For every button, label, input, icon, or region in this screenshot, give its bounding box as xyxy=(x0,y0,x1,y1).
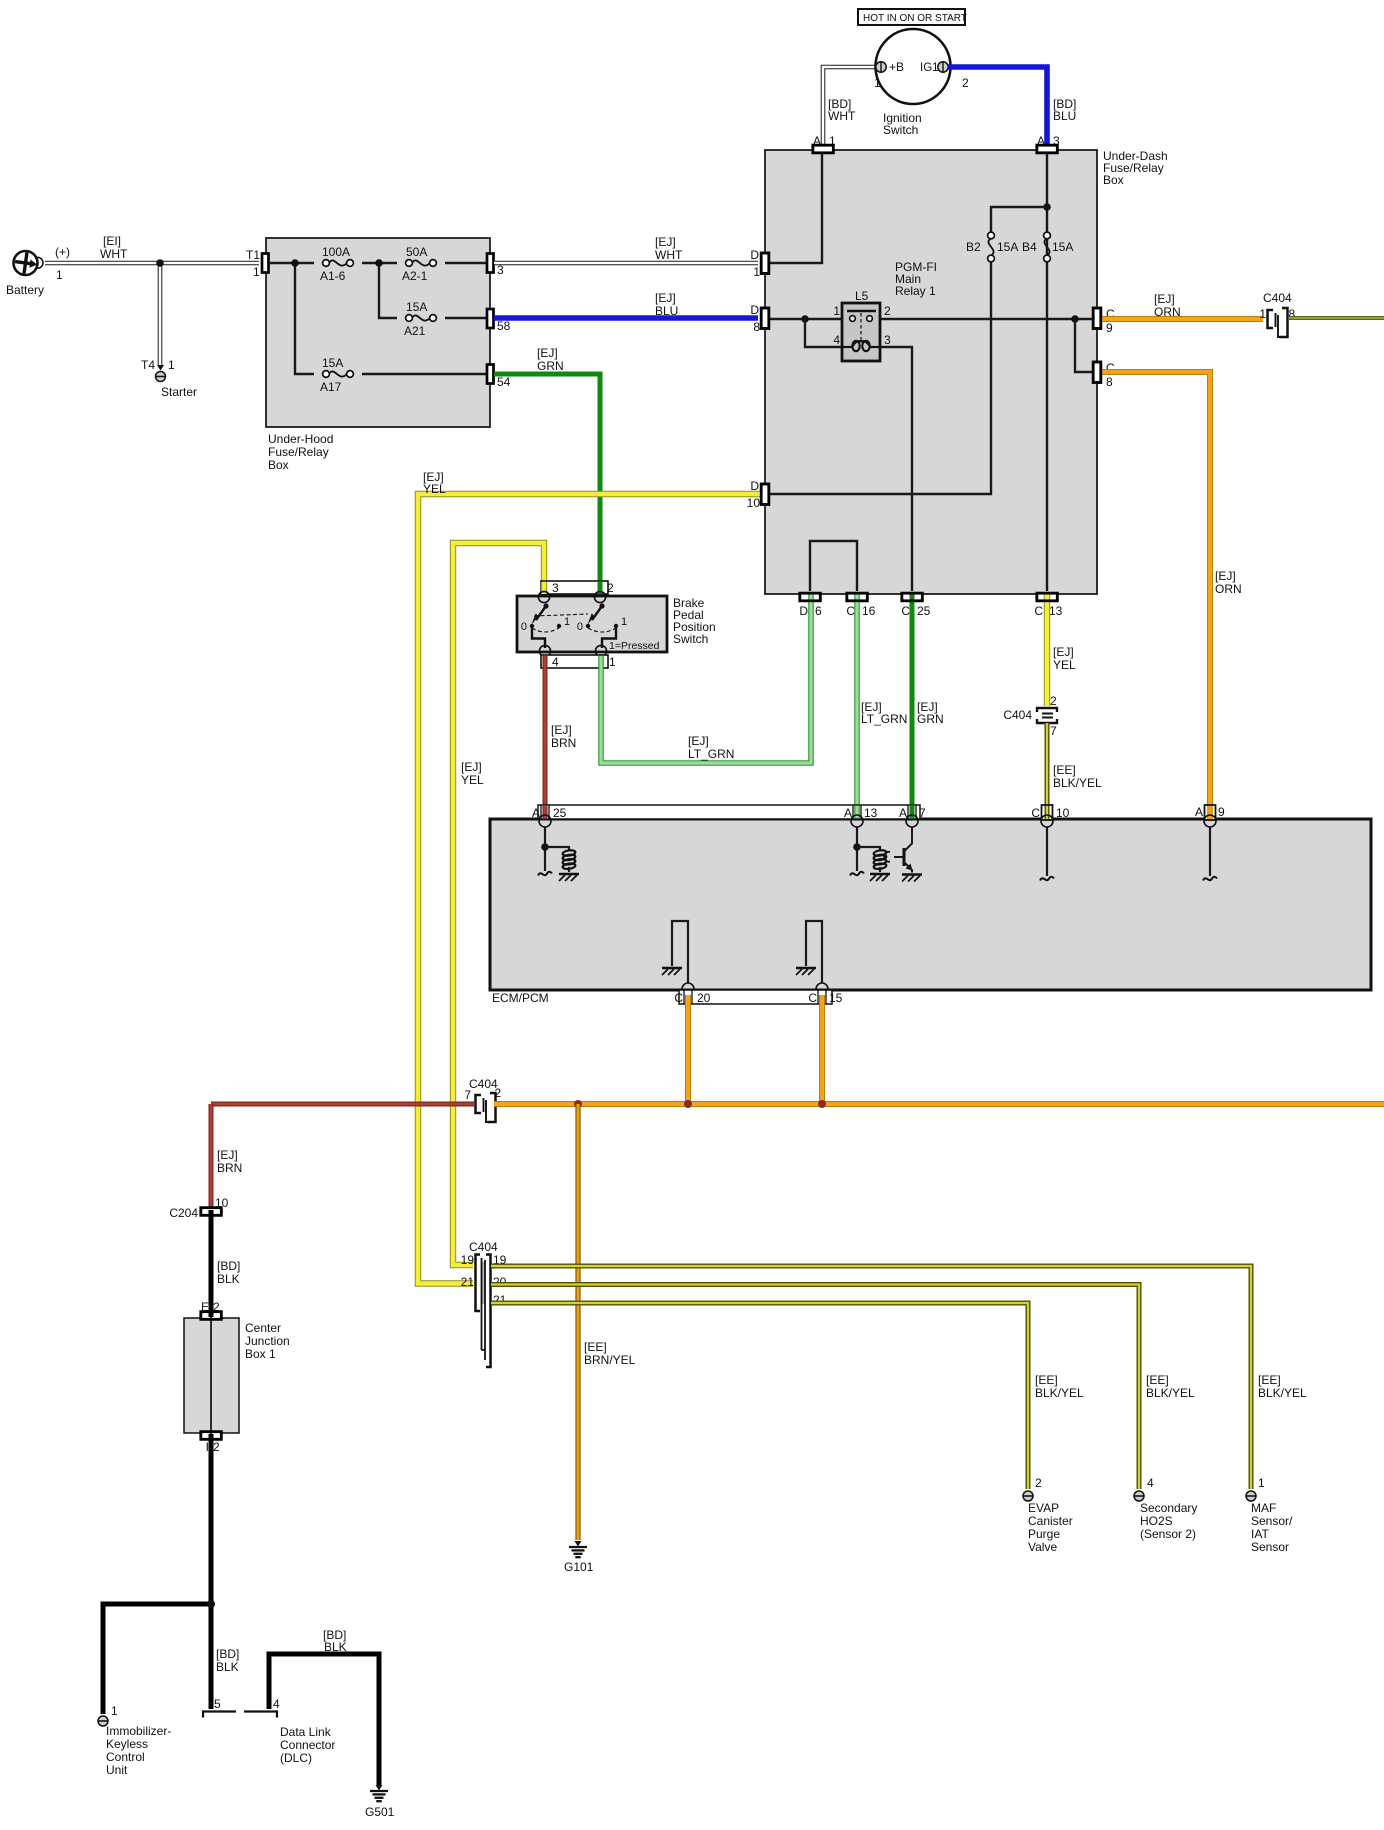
svg-text:19: 19 xyxy=(461,1253,475,1267)
svg-text:Canister: Canister xyxy=(1028,1514,1073,1528)
svg-text:GRN: GRN xyxy=(917,712,944,726)
svg-text:[EJ]: [EJ] xyxy=(461,760,482,774)
svg-text:BLU: BLU xyxy=(655,304,678,318)
wire BLK branch to immobilizer xyxy=(103,1604,211,1714)
svg-text:4: 4 xyxy=(552,655,559,669)
ground ECM C20 xyxy=(662,967,682,970)
wire WHT battery to T1 xyxy=(45,261,259,266)
svg-text:[EE]: [EE] xyxy=(1146,1373,1169,1387)
connector D8 xyxy=(761,308,769,329)
svg-text:WHT: WHT xyxy=(100,247,128,261)
ground ECM C15 xyxy=(796,967,816,970)
resistor ECM A25 pull-down xyxy=(562,850,575,857)
ECM internal C10 wire xyxy=(1046,827,1048,876)
svg-text:4: 4 xyxy=(273,1697,280,1711)
svg-text:25: 25 xyxy=(553,806,567,820)
Under-Hood Fuse/Relay Box xyxy=(266,238,490,427)
svg-text:1: 1 xyxy=(753,265,760,279)
wire ORN bus right xyxy=(494,1101,1384,1107)
svg-text:[EJ]: [EJ] xyxy=(1053,645,1074,659)
svg-text:1: 1 xyxy=(621,616,627,628)
svg-text:2: 2 xyxy=(213,1440,220,1454)
wire contact to pin 1 xyxy=(602,628,616,648)
resistor ECM A13 pull-down xyxy=(873,850,886,857)
connector C404 2/7 xyxy=(1037,708,1057,712)
svg-text:50A: 50A xyxy=(406,245,427,259)
fuse B4 15A xyxy=(1044,232,1051,239)
svg-text:Battery: Battery xyxy=(6,283,44,297)
brake switch bottom strip xyxy=(541,655,608,668)
svg-text:21: 21 xyxy=(461,1275,475,1289)
node under-hood bus 2 xyxy=(375,259,383,267)
wire [EJ] LT_GRN brake pin1 to D6 xyxy=(601,594,811,763)
wire [EE] BLK/YEL to HO2S xyxy=(491,1285,1139,1490)
svg-text:Fuse/Relay: Fuse/Relay xyxy=(268,445,329,459)
svg-text:[EJ]: [EJ] xyxy=(537,346,558,360)
svg-text:[EE]: [EE] xyxy=(1053,763,1076,777)
node A25 internal xyxy=(541,843,549,851)
svg-text:7: 7 xyxy=(464,1088,471,1102)
HOT IN ON OR START box xyxy=(858,9,965,25)
connector E2 xyxy=(201,1312,222,1320)
wire WHT branch to starter xyxy=(158,263,163,366)
Under-Dash Fuse/Relay Box xyxy=(765,150,1097,594)
svg-text:WHT: WHT xyxy=(828,109,856,123)
svg-text:BLK: BLK xyxy=(217,1272,240,1286)
svg-text:[EE]: [EE] xyxy=(584,1340,607,1354)
svg-text:BLK/YEL: BLK/YEL xyxy=(1035,1386,1084,1400)
svg-text:D: D xyxy=(750,248,759,262)
svg-text:1: 1 xyxy=(1258,1476,1265,1490)
Secondary HO2S terminal xyxy=(1134,1491,1144,1501)
svg-text:6: 6 xyxy=(815,604,822,618)
wire ECM internal A25 xyxy=(544,827,546,871)
wire [EE] BLK/YEL C404 to C10 xyxy=(1045,723,1050,817)
svg-text:9: 9 xyxy=(1106,321,1113,335)
ground G501 xyxy=(376,1785,383,1791)
brake switch lever left xyxy=(543,603,548,608)
svg-text:C: C xyxy=(846,604,855,618)
connector D1 xyxy=(761,253,769,274)
DLC pin 4 bracket xyxy=(244,1712,277,1718)
svg-text:Unit: Unit xyxy=(106,1763,128,1777)
svg-text:Data Link: Data Link xyxy=(280,1725,332,1739)
wire [EJ] GRN xyxy=(494,374,600,592)
connector D6 xyxy=(800,593,821,601)
svg-text:(Sensor 2): (Sensor 2) xyxy=(1140,1527,1196,1541)
svg-text:A: A xyxy=(532,806,540,820)
svg-text:A: A xyxy=(899,806,907,820)
battery xyxy=(14,251,44,275)
svg-text:YEL: YEL xyxy=(461,773,484,787)
svg-text:8: 8 xyxy=(753,320,760,334)
svg-text:A2-1: A2-1 xyxy=(402,269,428,283)
svg-text:A: A xyxy=(844,806,852,820)
svg-text:1: 1 xyxy=(874,76,881,90)
wire [BD] BLK I2 down xyxy=(209,1434,214,1709)
svg-text:0: 0 xyxy=(521,621,527,633)
connector pin 58 xyxy=(487,309,494,328)
wire [EJ] BLU xyxy=(494,315,758,321)
brake pin 3 circle xyxy=(538,591,549,602)
wire [EE] BLK/YEL to EVAP xyxy=(491,1303,1028,1489)
svg-text:IG1: IG1 xyxy=(920,62,939,74)
svg-text:[EJ]: [EJ] xyxy=(551,723,572,737)
svg-text:BRN: BRN xyxy=(217,1161,242,1175)
svg-text:A17: A17 xyxy=(320,380,342,394)
svg-text:C: C xyxy=(1031,806,1040,820)
svg-text:B4: B4 xyxy=(1022,240,1037,254)
svg-text:D: D xyxy=(799,604,808,618)
svg-text:2: 2 xyxy=(495,1086,502,1100)
svg-text:15A: 15A xyxy=(997,240,1018,254)
node C9/C8 branch xyxy=(1071,315,1079,323)
svg-text:BRN: BRN xyxy=(551,736,576,750)
svg-text:10: 10 xyxy=(1056,806,1070,820)
svg-text:BLK/YEL: BLK/YEL xyxy=(1053,776,1102,790)
svg-text:2: 2 xyxy=(1050,694,1057,708)
svg-text:C404: C404 xyxy=(1263,291,1292,305)
connector pin 3 xyxy=(487,254,494,273)
svg-text:16: 16 xyxy=(862,604,876,618)
relay L5 PGM-FI Main Relay 1 xyxy=(842,303,880,361)
svg-text:15A: 15A xyxy=(322,356,343,370)
wire BLK/YEL to right edge xyxy=(1289,316,1384,320)
connector D10 xyxy=(761,484,769,505)
svg-text:Box: Box xyxy=(1103,173,1124,187)
wire [EJ] BRN brake to A25 xyxy=(543,668,548,817)
svg-text:Relay 1: Relay 1 xyxy=(895,284,936,298)
junction battery/starter xyxy=(156,259,164,267)
svg-text:8: 8 xyxy=(1106,375,1113,389)
svg-text:Switch: Switch xyxy=(883,123,918,137)
svg-text:EVAP: EVAP xyxy=(1028,1501,1059,1515)
svg-text:I: I xyxy=(206,1440,209,1454)
svg-text:Under-Hood: Under-Hood xyxy=(268,432,333,446)
svg-text:T4: T4 xyxy=(141,358,155,372)
connector T1 xyxy=(262,254,269,273)
svg-text:C404: C404 xyxy=(469,1240,498,1254)
pin A9 xyxy=(1205,805,1216,820)
svg-text:D: D xyxy=(750,303,759,317)
wire ORN C20 down xyxy=(685,995,691,1104)
svg-text:Keyless: Keyless xyxy=(106,1737,148,1751)
DLC pin 5 bracket xyxy=(203,1712,236,1718)
svg-text:9: 9 xyxy=(1218,805,1225,819)
immobilizer terminal xyxy=(98,1716,108,1726)
ECM connector strip A xyxy=(538,805,920,819)
wire [BD] WHT ignition xyxy=(823,67,876,147)
connector C25 xyxy=(902,593,923,601)
svg-text:+B: +B xyxy=(889,60,904,74)
svg-text:2: 2 xyxy=(884,304,891,318)
svg-text:A21: A21 xyxy=(404,324,426,338)
svg-text:4: 4 xyxy=(833,333,840,347)
svg-text:(+): (+) xyxy=(55,245,70,259)
svg-text:1: 1 xyxy=(564,616,570,628)
svg-text:A: A xyxy=(1195,805,1203,819)
svg-text:C: C xyxy=(1034,604,1043,618)
svg-text:3: 3 xyxy=(884,333,891,347)
svg-text:13: 13 xyxy=(864,806,878,820)
svg-text:A1-6: A1-6 xyxy=(320,269,346,283)
svg-text:[EJ]: [EJ] xyxy=(217,1148,238,1162)
svg-text:1: 1 xyxy=(111,1704,118,1718)
wire [EE] BLK/YEL to MAF xyxy=(491,1266,1251,1489)
ground ECM A25 xyxy=(559,873,579,876)
fuse 50A A2-1 xyxy=(406,260,413,267)
svg-text:BLU: BLU xyxy=(1053,109,1076,123)
svg-text:ORN: ORN xyxy=(1215,582,1242,596)
wire jumper D6 to C16 xyxy=(810,541,857,591)
svg-text:15A: 15A xyxy=(406,300,427,314)
connector I2 xyxy=(201,1432,222,1440)
svg-text:G101: G101 xyxy=(564,1560,594,1574)
MAF Sensor/IAT Sensor terminal xyxy=(1246,1491,1256,1501)
wire [EJ] YEL C13 to C404 xyxy=(1044,594,1050,706)
svg-text:C404: C404 xyxy=(1003,708,1032,722)
svg-text:[EJ]: [EJ] xyxy=(688,734,709,748)
svg-text:1: 1 xyxy=(833,304,840,318)
wire [EJ] YEL brake pin 3 xyxy=(453,543,544,1265)
svg-text:1=Pressed: 1=Pressed xyxy=(609,640,660,652)
fuse B2 15A xyxy=(988,232,995,239)
wire [EJ] GRN C25 to A7 xyxy=(910,594,915,817)
wire to resistor xyxy=(857,847,880,851)
wire ECM internal A13 xyxy=(856,827,858,871)
svg-text:G501: G501 xyxy=(365,1805,395,1819)
svg-text:WHT: WHT xyxy=(655,248,683,262)
brake pin 2 circle xyxy=(594,591,605,602)
wire to relay coil pin 4 xyxy=(805,319,842,347)
wire [BD] BLK DLC to G501 xyxy=(269,1654,379,1785)
svg-text:1: 1 xyxy=(56,268,63,282)
svg-text:(DLC): (DLC) xyxy=(280,1751,312,1765)
wire [EJ] BRN bus left xyxy=(211,1102,474,1107)
svg-text:B2: B2 xyxy=(966,240,981,254)
svg-text:Box: Box xyxy=(268,458,289,472)
svg-text:20: 20 xyxy=(697,991,711,1005)
svg-text:Switch: Switch xyxy=(673,632,708,646)
svg-text:2: 2 xyxy=(1035,1476,1042,1490)
svg-text:[BD]: [BD] xyxy=(216,1647,239,1661)
brake pin 1 circle xyxy=(595,645,606,656)
svg-text:GRN: GRN xyxy=(537,359,564,373)
ignition switch xyxy=(876,29,951,104)
svg-text:Connector: Connector xyxy=(280,1738,335,1752)
svg-text:C: C xyxy=(674,991,683,1005)
svg-text:IAT: IAT xyxy=(1251,1527,1269,1541)
svg-text:[BD]: [BD] xyxy=(217,1259,240,1273)
wire contact to pin 4 xyxy=(532,628,545,648)
svg-text:[EI]: [EI] xyxy=(103,234,121,248)
svg-text:[EE]: [EE] xyxy=(1035,1373,1058,1387)
connector C404 19/20/21 xyxy=(476,1255,481,1312)
fuse 100A A1-6 xyxy=(323,260,330,267)
svg-text:15A: 15A xyxy=(1052,240,1073,254)
dashed mechanical link xyxy=(534,614,588,616)
svg-text:2: 2 xyxy=(962,76,969,90)
wire ORN C15 down xyxy=(819,995,825,1104)
svg-text:7: 7 xyxy=(919,806,926,820)
connector C9 xyxy=(1093,308,1101,329)
wire A3 down to C13 xyxy=(1046,153,1048,591)
fuse 15A A17 xyxy=(323,371,330,378)
svg-text:Control: Control xyxy=(106,1750,145,1764)
brake switch lever right xyxy=(599,603,604,608)
wire [BD] BLK C204 to E2 xyxy=(209,1210,214,1317)
wire through junction box xyxy=(210,1317,212,1434)
svg-text:BLK/YEL: BLK/YEL xyxy=(1258,1386,1307,1400)
connector C204 xyxy=(201,1208,222,1216)
pin A13 xyxy=(854,806,860,818)
connector C404 7/2 bus xyxy=(476,1095,482,1113)
pin C10 xyxy=(1042,805,1053,820)
brake switch top strip xyxy=(541,581,608,594)
svg-text:L5: L5 xyxy=(855,289,869,303)
wire branch to B2 xyxy=(991,207,1047,232)
svg-text:Sensor/: Sensor/ xyxy=(1251,1514,1293,1528)
node immobilizer branch xyxy=(207,1600,215,1608)
svg-text:BRN/YEL: BRN/YEL xyxy=(584,1353,636,1367)
node C15 branch xyxy=(818,1100,826,1108)
svg-text:Junction: Junction xyxy=(245,1334,290,1348)
svg-text:Valve: Valve xyxy=(1028,1540,1057,1554)
svg-text:BLK: BLK xyxy=(324,1640,347,1654)
svg-text:C: C xyxy=(901,604,910,618)
svg-text:LT_GRN: LT_GRN xyxy=(861,712,907,726)
wire [EJ] ORN C9 to C404 xyxy=(1101,316,1263,322)
svg-text:Center: Center xyxy=(245,1321,281,1335)
Center Junction Box 1 xyxy=(184,1318,239,1433)
svg-text:YEL: YEL xyxy=(1053,658,1076,672)
connector pin 54 xyxy=(487,365,494,384)
svg-text:ECM/PCM: ECM/PCM xyxy=(492,991,549,1005)
svg-text:HOT IN ON OR START: HOT IN ON OR START xyxy=(863,13,967,24)
svg-text:1: 1 xyxy=(1259,307,1266,321)
connector A1 xyxy=(813,145,834,153)
pin A7 xyxy=(910,806,915,818)
wire [EJ] WHT xyxy=(494,261,758,266)
svg-text:Box 1: Box 1 xyxy=(245,1347,276,1361)
svg-text:[EE]: [EE] xyxy=(1258,1373,1281,1387)
svg-text:1: 1 xyxy=(168,358,175,372)
svg-text:15: 15 xyxy=(829,991,843,1005)
Brake Pedal Position Switch box xyxy=(517,596,667,652)
wire [EJ] LT_GRN C16 to A13 xyxy=(854,594,860,817)
svg-text:1: 1 xyxy=(609,655,616,669)
svg-text:25: 25 xyxy=(917,604,931,618)
svg-text:3: 3 xyxy=(552,581,559,595)
wire [EJ] ORN C8 to A9 xyxy=(1101,372,1210,816)
svg-text:Purge: Purge xyxy=(1028,1527,1060,1541)
wire [EE] BRN/YEL to G101 xyxy=(575,1104,580,1540)
svg-text:[EJ]: [EJ] xyxy=(1154,292,1175,306)
svg-text:58: 58 xyxy=(497,319,511,333)
brake pin 4 circle xyxy=(539,645,550,656)
ECM bottom connector strip xyxy=(682,983,694,995)
ECM internal A9 wire xyxy=(1209,826,1211,876)
svg-text:T1: T1 xyxy=(246,248,260,262)
wire relay row D8 to C9 xyxy=(769,318,1093,320)
svg-text:LT_GRN: LT_GRN xyxy=(688,747,734,761)
node BRN/YEL branch xyxy=(574,1100,582,1108)
connector bar outlines overlay xyxy=(761,253,769,274)
connector C404 1/8 xyxy=(1268,310,1274,328)
svg-text:2: 2 xyxy=(607,581,614,595)
wire B2 down to D10 xyxy=(769,262,991,494)
svg-text:ORN: ORN xyxy=(1154,305,1181,319)
svg-text:BLK/YEL: BLK/YEL xyxy=(1146,1386,1195,1400)
wire to pull-up resistor xyxy=(545,847,569,851)
starter terminal T4 xyxy=(157,365,164,371)
svg-text:BLK: BLK xyxy=(216,1660,239,1674)
wire ECM internal C15 xyxy=(806,921,822,983)
connector C13 xyxy=(1037,593,1058,601)
ground G101 xyxy=(575,1541,582,1547)
wire branch to C8 xyxy=(1075,319,1093,372)
svg-text:100A: 100A xyxy=(322,245,350,259)
svg-text:13: 13 xyxy=(1049,604,1063,618)
node A13 internal xyxy=(853,843,861,851)
svg-text:[EJ]: [EJ] xyxy=(655,291,676,305)
ground ECM transistor emitter xyxy=(902,873,922,876)
connector C16 xyxy=(847,593,868,601)
EVAP Canister Purge Valve terminal xyxy=(1023,1491,1033,1501)
svg-text:[EJ]: [EJ] xyxy=(1215,569,1236,583)
svg-text:YEL: YEL xyxy=(423,482,446,496)
wire [EJ] BRN down xyxy=(209,1104,214,1208)
wire D1 to A1 xyxy=(769,153,822,263)
node under-hood bus 1 xyxy=(291,259,299,267)
svg-text:C204: C204 xyxy=(169,1206,198,1220)
svg-text:Immobilizer-: Immobilizer- xyxy=(106,1724,171,1738)
svg-text:4: 4 xyxy=(1147,1476,1154,1490)
svg-text:Secondary: Secondary xyxy=(1140,1501,1197,1515)
fuse 15A A21 xyxy=(406,315,413,322)
svg-text:0: 0 xyxy=(577,621,583,633)
connector C8 xyxy=(1093,362,1101,383)
connector A3 xyxy=(1037,145,1058,153)
ECM/PCM box xyxy=(490,819,1371,990)
wire [BD] BLU ignition xyxy=(948,67,1047,147)
wire relay pin 3 to C25 xyxy=(880,347,912,591)
svg-text:1: 1 xyxy=(253,265,260,279)
wire inside under-hood box xyxy=(269,262,314,264)
svg-text:MAF: MAF xyxy=(1251,1501,1276,1515)
svg-text:54: 54 xyxy=(497,375,511,389)
ground ECM A13 xyxy=(870,873,890,876)
svg-text:10: 10 xyxy=(747,496,761,510)
node relay feed xyxy=(801,315,809,323)
wire [EJ] YEL D10 long xyxy=(418,494,761,1284)
node C20 branch xyxy=(684,1100,692,1108)
node A3 branch xyxy=(1043,203,1051,211)
svg-text:[EJ]: [EJ] xyxy=(655,235,676,249)
svg-text:C: C xyxy=(808,991,817,1005)
svg-text:Sensor: Sensor xyxy=(1251,1540,1289,1554)
svg-text:Starter: Starter xyxy=(161,385,197,399)
svg-text:5: 5 xyxy=(214,1697,221,1711)
pin A25 xyxy=(543,806,548,818)
svg-text:HO2S: HO2S xyxy=(1140,1514,1173,1528)
transistor Q1 ECM driver xyxy=(884,852,890,862)
svg-text:7: 7 xyxy=(1050,724,1057,738)
wire ECM internal C20 xyxy=(672,921,688,983)
